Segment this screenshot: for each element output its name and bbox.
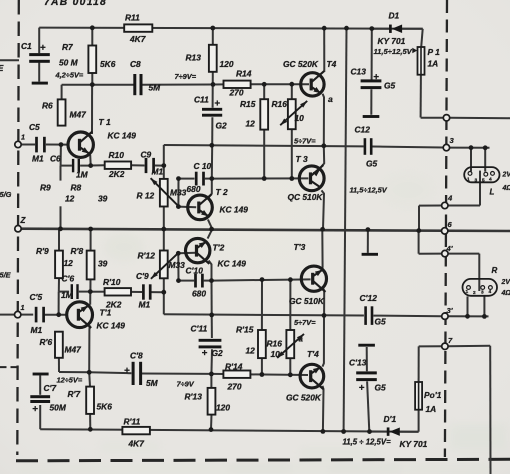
svg-text:2V: 2V bbox=[502, 172, 510, 179]
svg-text:2V: 2V bbox=[501, 279, 510, 286]
svg-text:R7: R7 bbox=[62, 42, 73, 52]
svg-text:2: 2 bbox=[473, 290, 476, 296]
svg-text:R14: R14 bbox=[236, 69, 252, 79]
svg-text:GC 520K: GC 520K bbox=[283, 59, 319, 69]
svg-text:4K7: 4K7 bbox=[128, 439, 145, 449]
svg-text:D1: D1 bbox=[389, 11, 400, 21]
svg-text:1: 1 bbox=[467, 177, 470, 183]
svg-text:39: 39 bbox=[98, 194, 108, 204]
svg-text:R: R bbox=[492, 266, 498, 275]
svg-text:T 3: T 3 bbox=[296, 154, 308, 164]
svg-text:C8: C8 bbox=[130, 59, 141, 69]
svg-text:M47: M47 bbox=[65, 345, 82, 355]
svg-text:12: 12 bbox=[246, 346, 256, 356]
svg-text:KY 701: KY 701 bbox=[400, 439, 428, 449]
svg-text:M1: M1 bbox=[152, 167, 164, 177]
svg-text:11,5÷12,5V: 11,5÷12,5V bbox=[374, 47, 413, 56]
svg-text:12: 12 bbox=[65, 194, 75, 204]
svg-text:2K2: 2K2 bbox=[108, 169, 125, 179]
svg-text:2K2: 2K2 bbox=[105, 300, 122, 310]
svg-text:QC 510K: QC 510K bbox=[288, 192, 324, 202]
svg-text:3: 3 bbox=[481, 290, 484, 296]
svg-text:4′: 4′ bbox=[446, 244, 454, 253]
svg-text:G5: G5 bbox=[375, 383, 387, 393]
svg-text:C′13: C′13 bbox=[349, 358, 367, 368]
svg-text:R8: R8 bbox=[71, 183, 82, 193]
svg-text:4: 4 bbox=[489, 177, 492, 183]
svg-text:G2: G2 bbox=[212, 348, 224, 358]
svg-text:Po′1: Po′1 bbox=[424, 390, 442, 400]
svg-text:5M: 5M bbox=[149, 83, 162, 93]
svg-text:R′9: R′9 bbox=[36, 246, 49, 256]
svg-text:120: 120 bbox=[220, 59, 234, 69]
svg-text:R′13: R′13 bbox=[185, 392, 203, 402]
svg-text:C12: C12 bbox=[355, 125, 371, 135]
svg-text:C13: C13 bbox=[351, 67, 367, 77]
svg-text:12: 12 bbox=[64, 258, 74, 268]
svg-text:M1: M1 bbox=[139, 300, 151, 310]
svg-text:P 1: P 1 bbox=[428, 47, 441, 57]
svg-text:G5: G5 bbox=[384, 81, 396, 91]
svg-text:R′11: R′11 bbox=[124, 417, 141, 427]
svg-text:M1: M1 bbox=[31, 325, 43, 335]
svg-text:7AB 00118: 7AB 00118 bbox=[44, 0, 107, 8]
svg-text:C1: C1 bbox=[21, 41, 32, 51]
svg-text:R9: R9 bbox=[40, 183, 51, 193]
svg-text:680: 680 bbox=[192, 289, 206, 299]
svg-text:270: 270 bbox=[227, 382, 242, 392]
svg-text:a: a bbox=[328, 94, 333, 104]
svg-text:R′8: R′8 bbox=[71, 246, 84, 256]
svg-text:C′5: C′5 bbox=[30, 292, 43, 302]
svg-text:C′8: C′8 bbox=[130, 351, 143, 361]
svg-text:4,2÷5V=: 4,2÷5V= bbox=[55, 71, 84, 80]
svg-text:5/E: 5/E bbox=[0, 271, 12, 280]
svg-text:4K7: 4K7 bbox=[129, 34, 146, 44]
svg-text:D′1: D′1 bbox=[384, 414, 397, 424]
svg-text:R11: R11 bbox=[125, 13, 140, 23]
svg-text:1: 1 bbox=[466, 289, 469, 295]
svg-text:12: 12 bbox=[246, 119, 256, 129]
svg-text:R15: R15 bbox=[240, 99, 256, 109]
svg-text:M33: M33 bbox=[170, 188, 187, 198]
svg-text:C6: C6 bbox=[50, 154, 61, 164]
svg-text:R10: R10 bbox=[109, 150, 125, 160]
svg-text:C9: C9 bbox=[141, 150, 152, 160]
svg-text:5K6: 5K6 bbox=[97, 402, 113, 412]
svg-text:11,5 ÷ 12,5V=: 11,5 ÷ 12,5V= bbox=[343, 438, 392, 447]
svg-text:4Ω: 4Ω bbox=[501, 290, 510, 297]
svg-text:T′3: T′3 bbox=[294, 242, 306, 252]
svg-text:R13: R13 bbox=[186, 53, 202, 63]
svg-text:R′6: R′6 bbox=[40, 337, 53, 347]
svg-text:R16: R16 bbox=[267, 339, 283, 349]
svg-text:R′12: R′12 bbox=[138, 251, 156, 261]
svg-text:R′10: R′10 bbox=[103, 277, 121, 287]
svg-text:1: 1 bbox=[21, 303, 25, 312]
svg-text:10: 10 bbox=[271, 349, 281, 359]
svg-text:C 10: C 10 bbox=[194, 161, 212, 171]
svg-text:C′11: C′11 bbox=[191, 324, 208, 334]
svg-text:G2: G2 bbox=[216, 121, 228, 131]
svg-text:C5: C5 bbox=[29, 122, 40, 132]
svg-text:M1: M1 bbox=[32, 154, 44, 164]
svg-text:3: 3 bbox=[475, 178, 478, 184]
svg-text:5: 5 bbox=[482, 178, 485, 184]
svg-text:5÷7V=: 5÷7V= bbox=[294, 137, 316, 146]
svg-text:T4: T4 bbox=[327, 59, 337, 69]
svg-text:10: 10 bbox=[295, 113, 305, 123]
svg-text:C′12: C′12 bbox=[360, 293, 378, 303]
svg-text:a: a bbox=[299, 335, 304, 344]
svg-text:R′15: R′15 bbox=[236, 325, 254, 335]
svg-text:270: 270 bbox=[229, 88, 244, 98]
svg-text:5K6: 5K6 bbox=[100, 59, 116, 69]
svg-text:120: 120 bbox=[216, 403, 230, 413]
svg-text:1A: 1A bbox=[426, 404, 437, 414]
svg-text:39: 39 bbox=[98, 259, 108, 269]
svg-text:7÷9V: 7÷9V bbox=[177, 380, 195, 389]
svg-text:R′7: R′7 bbox=[68, 389, 81, 399]
svg-text:T′4: T′4 bbox=[307, 349, 319, 359]
svg-text:KC 149: KC 149 bbox=[108, 131, 137, 141]
svg-text:5M: 5M bbox=[146, 378, 159, 388]
svg-text:R′14: R′14 bbox=[225, 362, 243, 372]
svg-text:C′7: C′7 bbox=[44, 383, 57, 393]
svg-text:4Ω: 4Ω bbox=[502, 185, 510, 192]
svg-text:5/G: 5/G bbox=[0, 190, 12, 199]
svg-text:M47: M47 bbox=[70, 110, 87, 120]
svg-text:C′6: C′6 bbox=[62, 274, 75, 284]
svg-text:7÷9V=: 7÷9V= bbox=[175, 72, 197, 81]
svg-text:M33: M33 bbox=[169, 260, 186, 270]
svg-text:KC 149: KC 149 bbox=[97, 321, 126, 331]
svg-text:50M: 50M bbox=[50, 403, 67, 413]
svg-text:R16: R16 bbox=[272, 99, 288, 109]
svg-text:1M: 1M bbox=[61, 290, 74, 300]
svg-text:L: L bbox=[490, 188, 495, 197]
svg-text:680: 680 bbox=[187, 184, 201, 194]
svg-text:R6: R6 bbox=[42, 101, 53, 111]
svg-text:T 2: T 2 bbox=[216, 187, 228, 197]
svg-text:50 M: 50 M bbox=[59, 58, 79, 68]
svg-text:GC 510K: GC 510K bbox=[289, 296, 325, 306]
svg-text:12÷5V=: 12÷5V= bbox=[57, 376, 83, 385]
svg-text:1: 1 bbox=[21, 133, 25, 142]
svg-text:1M: 1M bbox=[76, 170, 89, 180]
svg-text:5÷7V=: 5÷7V= bbox=[294, 318, 316, 327]
svg-text:G5: G5 bbox=[366, 159, 378, 169]
svg-text:4: 4 bbox=[489, 289, 492, 295]
svg-text:G5: G5 bbox=[375, 317, 387, 327]
svg-text:KY 701: KY 701 bbox=[378, 36, 406, 46]
svg-text:1A: 1A bbox=[428, 59, 439, 69]
svg-text:T 1: T 1 bbox=[99, 117, 111, 127]
svg-text:KC 149: KC 149 bbox=[220, 205, 249, 215]
svg-text:11,5÷12,5V: 11,5÷12,5V bbox=[350, 186, 388, 195]
svg-text:C11: C11 bbox=[194, 95, 209, 105]
svg-text:T′2: T′2 bbox=[213, 243, 225, 253]
svg-text:C′10: C′10 bbox=[186, 266, 204, 276]
svg-text:R 12: R 12 bbox=[137, 191, 155, 201]
svg-text:C′9: C′9 bbox=[136, 271, 149, 281]
svg-text:4: 4 bbox=[447, 194, 453, 203]
svg-text:GC 520K: GC 520K bbox=[286, 393, 322, 403]
svg-text:KC 149: KC 149 bbox=[218, 259, 247, 269]
